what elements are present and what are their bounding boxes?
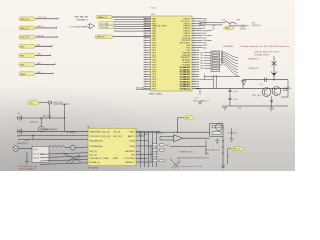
svg-text:51: 51 (193, 45, 195, 47)
svg-text:PB0O: PB0O (129, 132, 135, 134)
svg-text:LB0_4P: LB0_4P (33, 158, 40, 160)
svg-text:25: 25 (145, 55, 147, 57)
svg-text:63: 63 (193, 74, 195, 76)
svg-text:31: 31 (145, 69, 147, 71)
svg-text:swit(*): swit(*) (24, 138, 29, 141)
svg-text:SW_1: SW_1 (37, 63, 42, 65)
svg-text:20: 20 (145, 43, 147, 45)
svg-text:TRIM_XTL: TRIM_XTL (97, 37, 106, 39)
svg-text:a.3m: a.3m (205, 153, 209, 155)
svg-text:BAL/TD: BAL/TD (128, 135, 135, 138)
svg-text:GND_C2: GND_C2 (233, 149, 240, 151)
svg-text:1_1uF: 1_1uF (232, 91, 237, 93)
svg-text:PG2A: PG2A (129, 140, 135, 143)
svg-text:POWERED BUT2: POWERED BUT2 (179, 151, 194, 153)
svg-text:PA13/TALST(2): PA13/TALST(2) (90, 140, 103, 143)
svg-text:GATE_CONN2: GATE_CONN2 (149, 92, 163, 95)
svg-text:BAT_C0N52: BAT_C0N52 (139, 133, 148, 136)
svg-text:19: 19 (145, 40, 147, 42)
svg-text:42: 42 (193, 23, 195, 25)
svg-text:45: 45 (193, 30, 195, 32)
svg-text:XXXXAB_VPXF?: XXXXAB_VPXF? (254, 53, 270, 56)
svg-text:40: 40 (193, 18, 195, 20)
svg-text:52: 52 (193, 47, 195, 49)
svg-text:VD4: VD4 (203, 47, 207, 49)
svg-text:PC9/AD1L0: PC9/AD1L0 (180, 88, 191, 91)
svg-text:AMKV82A2C2/HT24P/12F1(2CF2/12V: AMKV82A2C2/HT24P/12F1(2CF2/12V) (177, 157, 209, 160)
svg-text:P2N5Z(*4): P2N5Z(*4) (248, 68, 259, 70)
svg-text:X1A0: X1A0 (225, 27, 229, 30)
svg-text:STDCLK/TCK_(NC_IV2): STDCLK/TCK_(NC_IV2) (90, 136, 111, 138)
svg-text:64: 64 (193, 76, 195, 78)
svg-text:PAL4: PAL4 (20, 73, 26, 76)
svg-text:24: 24 (145, 52, 147, 54)
svg-text:AuC_(2m): AuC_(2m) (43, 115, 52, 118)
svg-text:A-PA?: A-PA? (283, 89, 288, 92)
svg-text:SMU_PAD_MK: SMU_PAD_MK (74, 16, 88, 19)
svg-text:VDDIO/BOOT3_GN80: VDDIO/BOOT3_GN80 (90, 158, 109, 160)
svg-text:13: 13 (145, 26, 147, 28)
svg-text:"PCA78S8": "PCA78S8" (223, 45, 234, 48)
svg-text:C?: C? (228, 156, 230, 158)
svg-text:1uF: 1uF (238, 107, 241, 109)
svg-text:15: 15 (145, 30, 147, 32)
svg-text:26: 26 (145, 57, 147, 59)
svg-text:PD0: PD0 (200, 53, 203, 55)
svg-text:58: 58 (193, 62, 195, 64)
svg-text:CY7CLK64_VERIFY: CY7CLK64_VERIFY (70, 26, 89, 28)
svg-text:34: 34 (145, 76, 147, 78)
svg-text:SW1_O: SW1_O (37, 26, 44, 28)
svg-text:Gates connect Cxx at R3R1: Gates connect Cxx at R3R1 (180, 165, 202, 168)
svg-text:47: 47 (193, 35, 195, 37)
svg-text:41: 41 (193, 21, 195, 23)
svg-text:30: 30 (145, 67, 147, 69)
svg-text:CY2_GN5: CY2_GN5 (100, 23, 108, 25)
svg-text:53: 53 (193, 50, 195, 52)
svg-text:55: 55 (193, 55, 195, 57)
svg-text:17: 17 (145, 35, 147, 37)
svg-text:POWGND(400): POWGND(400) (90, 146, 104, 148)
svg-text:57: 57 (193, 59, 195, 61)
svg-text:68: 68 (193, 86, 195, 88)
svg-text:P2N5Z(*2): P2N5Z(*2) (248, 58, 259, 60)
svg-text:PGA64: PGA64 (150, 7, 156, 10)
svg-text:60: 60 (193, 67, 195, 69)
svg-text:69: 69 (193, 88, 195, 90)
svg-text:38: 38 (145, 86, 147, 88)
svg-text:39: 39 (145, 88, 147, 90)
svg-text:POW_GBL2_D4C: POW_GBL2_D4C (205, 150, 221, 152)
svg-text:C?(2m)Q?: C?(2m)Q? (228, 133, 236, 135)
svg-text:14: 14 (145, 28, 147, 30)
svg-text:IN1: IN1 (37, 44, 40, 46)
svg-text:(B5): (B5) (44, 129, 48, 131)
svg-text:XXXXXX_A/LXX_F1 2 EXX?: XXXXXX_A/LXX_F1 2 EXX? (254, 50, 280, 53)
svg-text:23: 23 (145, 50, 147, 52)
svg-text:22: 22 (145, 47, 147, 49)
svg-text:NRST: NRST (113, 158, 119, 160)
svg-text:32: 32 (145, 72, 147, 74)
svg-text:61: 61 (193, 69, 195, 71)
svg-text:28: 28 (145, 62, 147, 64)
svg-text:SMAKE_PL: SMAKE_PL (98, 16, 108, 19)
svg-text:SCK_IN: SCK_IN (37, 35, 44, 37)
svg-text:SwD(9%): SwD(9%) (30, 121, 38, 123)
svg-text:VD5A: VD5A (130, 145, 136, 148)
svg-text:C52_A: C52_A (157, 132, 163, 135)
svg-text:27: 27 (145, 59, 147, 61)
svg-text:SWDIO/TMS+_(NC_W): SWDIO/TMS+_(NC_W) (90, 132, 110, 134)
svg-text:PD1: PD1 (200, 55, 203, 57)
svg-text:PAD_OC: PAD_OC (20, 27, 29, 30)
svg-text:C1/C30: C1/C30 (240, 29, 246, 31)
svg-text:67: 67 (193, 84, 195, 86)
svg-text:PKM/SMS_V: PKM/SMS_V (76, 19, 88, 21)
svg-text:MwDT(2)-(2): MwDT(2)-(2) (18, 143, 29, 145)
svg-text:C_2u: C_2u (259, 84, 263, 86)
svg-text:11: 11 (145, 21, 147, 23)
svg-text:B1D/C_100MA_4P: B1D/C_100MA_4P (19, 167, 37, 170)
svg-text:2.2u: 2.2u (17, 113, 20, 115)
svg-text:18: 18 (145, 38, 147, 40)
svg-text:+3V3: +3V3 (29, 102, 33, 104)
svg-text:16: 16 (145, 33, 147, 35)
svg-text:54: 54 (193, 52, 195, 54)
svg-text:33: 33 (145, 74, 147, 76)
svg-text:VD1_(C): VD1_(C) (90, 154, 98, 156)
svg-text:PD4: PD4 (200, 63, 203, 65)
svg-text:PRB_OC: PRB_OC (20, 19, 29, 21)
svg-text:44: 44 (193, 28, 195, 30)
svg-text:CY4_GN3: CY4_GN3 (100, 27, 108, 29)
svg-text:29: 29 (145, 64, 147, 66)
svg-text:49: 49 (193, 40, 195, 42)
svg-text:PD6: PD6 (200, 68, 203, 70)
svg-text:48: 48 (193, 38, 195, 40)
svg-text:GND/UP3P: GND/UP3P (125, 151, 135, 153)
svg-text:Dx_6805(1): Dx_6805(1) (66, 132, 76, 134)
svg-text:VDDBB_(C): VDDBB_(C) (90, 162, 101, 164)
svg-text:66: 66 (193, 81, 195, 83)
svg-text:OSC_IN: OSC_IN (113, 132, 121, 134)
svg-text:59: 59 (193, 64, 195, 66)
svg-text:XTAL(F1)?: XTAL(F1)? (252, 24, 261, 27)
svg-text:65: 65 (193, 79, 195, 81)
svg-text:1_1uF: 1_1uF (232, 99, 237, 101)
svg-text:37: 37 (145, 84, 147, 86)
svg-text:46: 46 (193, 33, 195, 35)
svg-text:MT?_SDRA: MT?_SDRA (88, 167, 98, 170)
svg-text:36: 36 (145, 81, 147, 83)
svg-text:21: 21 (145, 45, 147, 47)
svg-text:PD2: PD2 (200, 58, 203, 60)
svg-text:10: 10 (145, 18, 147, 20)
svg-text:43: 43 (193, 26, 195, 28)
svg-text:C-beads capacitor 0 on 10K, 10: C-beads capacitor 0 on 10K, 10K (1kOhm) … (241, 45, 291, 48)
svg-text:1uF: 1uF (166, 145, 169, 147)
svg-text:PD3: PD3 (200, 60, 203, 62)
svg-text:PD5: PD5 (200, 66, 203, 68)
svg-text:SW_2: SW_2 (37, 54, 42, 56)
svg-text:OSC_OUT: OSC_OUT (113, 136, 123, 138)
svg-text:LPC2/P0B3: LPC2/P0B3 (125, 158, 135, 160)
svg-text:USBDAT0+: USBDAT0+ (125, 161, 136, 164)
svg-text:12: 12 (145, 23, 147, 25)
svg-text:50: 50 (193, 43, 195, 45)
svg-text:POK_OC: POK_OC (20, 37, 29, 39)
svg-text:SW_3: SW_3 (37, 72, 42, 74)
svg-text:(2N2_2Na): (2N2_2Na) (252, 95, 261, 97)
svg-text:62: 62 (193, 72, 195, 74)
svg-text:1_PC1_OC: 1_PC1_OC (37, 17, 47, 19)
svg-text:35: 35 (145, 79, 147, 81)
svg-text:2.2u: 2.2u (17, 136, 20, 138)
svg-text:56: 56 (193, 57, 195, 59)
svg-text:VD0_(C): VD0_(C) (90, 151, 98, 153)
